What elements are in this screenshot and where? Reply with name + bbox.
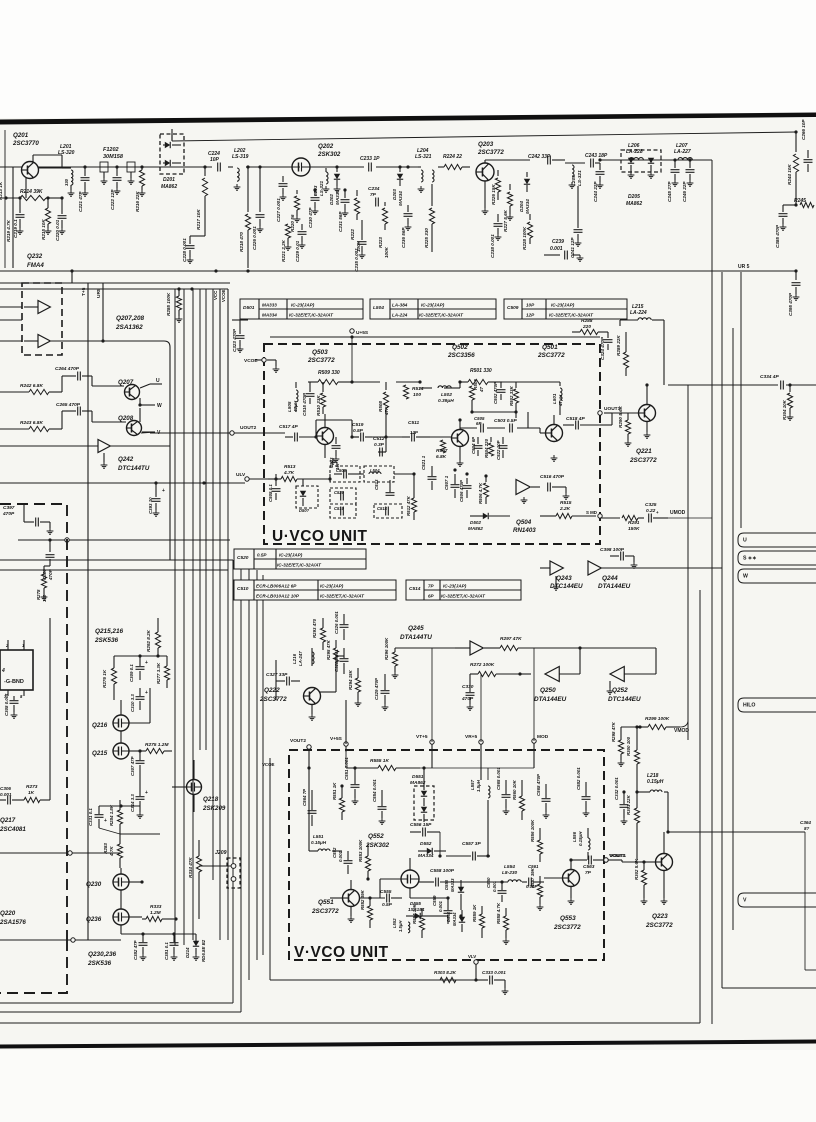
capacitor C382 47P — [133, 934, 148, 960]
svg-text:R288: R288 — [581, 318, 593, 324]
svg-text:10P: 10P — [210, 157, 220, 163]
svg-text:IC-32E/ET,IC-32A/AT: IC-32E/ET,IC-32A/AT — [289, 313, 334, 318]
bus wire — [740, 272, 742, 528]
resistor R300 100 — [626, 725, 640, 775]
wire — [487, 800, 489, 856]
transistor Q222 — [259, 680, 336, 720]
svg-text:2SK536: 2SK536 — [94, 637, 119, 644]
inductor L204 — [415, 148, 434, 192]
svg-text:Q202: Q202 — [318, 143, 334, 150]
svg-text:0.22: 0.22 — [646, 508, 656, 514]
capacitor C519 0.5P — [352, 422, 372, 442]
wire — [666, 792, 805, 834]
svg-text:VCOE: VCOE — [262, 762, 275, 767]
capacitor C309 0.1 — [129, 656, 148, 682]
svg-text:+: + — [145, 790, 148, 796]
capacitor C239 0.001 — [544, 239, 583, 261]
capacitor C516 470P — [540, 474, 569, 499]
node UOUT1 — [598, 406, 621, 415]
svg-text:L552: L552 — [392, 918, 397, 928]
wire — [487, 427, 505, 429]
wire — [71, 271, 73, 283]
capacitor C385 470P — [775, 205, 796, 248]
svg-text:L8-230: L8-230 — [502, 870, 518, 876]
capacitor C308 0.001 — [4, 693, 19, 718]
resistor R278 100 — [36, 566, 50, 602]
svg-text:D205: D205 — [628, 194, 640, 200]
capacitor C563 7P — [571, 856, 604, 877]
svg-text:VCOE: VCOE — [221, 289, 226, 302]
node VOUT1 — [604, 853, 626, 862]
svg-text:12P: 12P — [526, 313, 535, 318]
svg-text:R227 5.6K: R227 5.6K — [503, 209, 508, 232]
node S MD — [586, 510, 602, 518]
capacitor C517 4P — [279, 424, 316, 442]
table C510 — [234, 580, 396, 600]
wire — [275, 474, 277, 479]
svg-text:IC-23(JAP): IC-23(JAP) — [421, 303, 445, 308]
capacitor C242 33P — [528, 154, 565, 165]
capacitor C522 10P — [496, 437, 508, 460]
svg-text:C514: C514 — [409, 586, 421, 592]
label VCOE2 — [262, 762, 275, 767]
label UMOD — [670, 510, 686, 516]
svg-text:C306: C306 — [0, 786, 11, 791]
svg-text:7P: 7P — [370, 192, 377, 198]
svg-text:R301 22K: R301 22K — [626, 794, 631, 815]
rail — [0, 569, 228, 571]
resistor R333 1.2M — [142, 904, 178, 922]
capacitor C246 22P — [682, 160, 695, 202]
node VOUT1 v — [604, 853, 627, 862]
svg-text:D202: D202 — [329, 194, 334, 205]
svg-text:D553: D553 — [444, 879, 449, 890]
svg-text:S ∗∗: S ∗∗ — [743, 556, 757, 562]
svg-text:D50?: D50? — [299, 508, 310, 513]
capacitor C325 0.22 — [645, 502, 668, 523]
svg-text:MA862: MA862 — [410, 780, 426, 786]
label Q552 — [365, 833, 390, 849]
resistor R502 33K — [509, 382, 519, 418]
svg-text:C310 3.3: C310 3.3 — [130, 694, 135, 712]
svg-text:R554 10K: R554 10K — [412, 903, 417, 924]
junction — [794, 203, 797, 206]
svg-text:C327 33P: C327 33P — [266, 672, 288, 678]
svg-text:R291: R291 — [628, 520, 640, 526]
wire — [517, 427, 540, 429]
junction dots UVCO — [274, 380, 517, 480]
resistor R514 100 — [403, 385, 423, 399]
capacitor C314 3.3 — [130, 775, 148, 818]
V-VCO outer box — [269, 758, 271, 980]
label Q215 216 — [94, 628, 124, 644]
svg-text:470P: 470P — [48, 568, 53, 581]
svg-text:C509: C509 — [507, 305, 519, 311]
svg-text:Q215: Q215 — [92, 750, 108, 757]
wire — [430, 436, 451, 438]
wire rail 540 — [18, 539, 230, 541]
svg-text:LS-320: LS-320 — [58, 150, 75, 156]
svg-text:C243 18P: C243 18P — [585, 153, 608, 159]
svg-text:330: 330 — [64, 178, 69, 186]
bus wire — [183, 289, 185, 945]
svg-text:C219 0.1: C219 0.1 — [13, 219, 18, 238]
svg-text:30M158: 30M158 — [103, 154, 124, 160]
svg-text:LS-321: LS-321 — [415, 154, 432, 160]
wire — [385, 428, 387, 452]
svg-text:Q252: Q252 — [612, 687, 628, 694]
svg-text:C314 3.3: C314 3.3 — [130, 794, 135, 812]
wire — [12, 167, 14, 268]
wire — [140, 655, 167, 657]
right nest corner — [722, 987, 816, 989]
wire — [480, 752, 482, 780]
svg-text:+: + — [162, 488, 165, 494]
svg-text:C238 0.001: C238 0.001 — [490, 234, 495, 258]
svg-text:C556 15P: C556 15P — [410, 822, 432, 828]
capacitor C564 7P — [302, 752, 317, 826]
capacitor C515 470P — [302, 382, 315, 416]
wire — [352, 381, 380, 383]
resistor R276 1K — [102, 656, 117, 700]
svg-text:C220 0.01: C220 0.01 — [55, 219, 60, 241]
table D501 — [240, 299, 363, 319]
junction — [154, 481, 205, 484]
svg-text:R243 6.8K: R243 6.8K — [20, 420, 43, 426]
svg-text:FMA4: FMA4 — [27, 262, 44, 269]
wire rail 853 — [0, 851, 120, 855]
transistor Q203 — [476, 141, 530, 214]
wire — [379, 879, 381, 898]
svg-text:R292 8.2K: R292 8.2K — [146, 629, 151, 652]
svg-text:C221 47P: C221 47P — [78, 191, 83, 212]
svg-text:2SC3772: 2SC3772 — [307, 357, 335, 364]
svg-text:R215 10K: R215 10K — [41, 219, 46, 240]
bus wire — [711, 160, 713, 1024]
svg-text:Q504: Q504 — [516, 519, 532, 526]
resistor R228 100K — [522, 214, 533, 250]
svg-text:U: U — [743, 538, 747, 544]
svg-text:4.7K: 4.7K — [109, 846, 114, 857]
capacitor C510 dashed — [330, 504, 356, 518]
svg-text:C333 0.001: C333 0.001 — [482, 970, 506, 975]
wire — [460, 427, 477, 429]
svg-text:C330: C330 — [462, 684, 474, 690]
svg-text:V+5S: V+5S — [330, 736, 343, 742]
wire — [502, 381, 560, 383]
wire — [378, 451, 386, 453]
wire U+5S rail — [270, 329, 600, 339]
svg-text:IC-32E/ET,IC-32A/AT: IC-32E/ET,IC-32A/AT — [419, 313, 464, 318]
label RD6.8E B2 — [201, 939, 206, 962]
svg-text:MA862: MA862 — [161, 184, 177, 190]
buffer amp A — [0, 301, 50, 314]
svg-text:R244 10K: R244 10K — [787, 164, 792, 185]
svg-text:R278: R278 — [36, 589, 41, 600]
svg-text:Q502: Q502 — [452, 344, 468, 351]
bus wire — [227, 480, 229, 940]
capacitor C326 0.001 — [334, 611, 349, 640]
svg-text:VOUT2: VOUT2 — [290, 738, 306, 744]
svg-text:C564 7P: C564 7P — [302, 789, 307, 806]
bottom nest line1 — [0, 1002, 233, 1004]
svg-text:100K: 100K — [384, 246, 389, 258]
svg-text:L551: L551 — [313, 834, 324, 839]
resistor R303 8.2K — [434, 970, 457, 983]
svg-text:L505: L505 — [287, 401, 292, 412]
svg-text:0.5P: 0.5P — [353, 428, 364, 434]
bottom nest line3 — [0, 1022, 700, 1024]
resistor R244 10K — [787, 132, 799, 204]
capacitor C300 470P — [42, 538, 55, 581]
wire top rail slanted — [172, 132, 796, 141]
svg-text:+: + — [145, 660, 148, 666]
wire — [413, 474, 415, 484]
svg-text:C522 10P: C522 10P — [496, 440, 501, 460]
wire — [420, 387, 432, 389]
svg-text:C582 0.001: C582 0.001 — [576, 767, 581, 790]
svg-text:R513: R513 — [284, 464, 296, 470]
svg-text:LS-321: LS-321 — [319, 180, 324, 196]
svg-text:R510 33K: R510 33K — [316, 395, 321, 416]
svg-text:C266 10P: C266 10P — [801, 119, 806, 140]
svg-text:C565 0.001: C565 0.001 — [496, 767, 501, 790]
fet Q236 — [86, 890, 142, 925]
wire — [376, 166, 418, 168]
svg-text:LA-247: LA-247 — [298, 651, 303, 666]
capacitor C506 470P — [459, 478, 472, 502]
svg-text:2SK302: 2SK302 — [365, 842, 390, 849]
svg-text:C264 470P: C264 470P — [55, 366, 80, 372]
svg-text:ECR-LB006A12 6P: ECR-LB006A12 6P — [256, 584, 297, 589]
capacitor C236 56P — [401, 205, 413, 248]
svg-text:U: U — [156, 378, 160, 384]
svg-text:+: + — [656, 510, 659, 515]
svg-text:Q245: Q245 — [408, 625, 424, 632]
wire — [533, 648, 535, 741]
svg-text:MA334: MA334 — [452, 912, 457, 926]
buffer Q243 — [540, 561, 583, 590]
resistor R217 10K — [196, 167, 208, 236]
svg-text:Q223: Q223 — [652, 913, 668, 920]
capacitor C558 100P — [419, 868, 460, 887]
svg-text:D552: D552 — [420, 841, 432, 847]
bus wire — [262, 575, 264, 955]
wire — [394, 473, 414, 475]
svg-text:Q553: Q553 — [560, 915, 576, 922]
capacitor C554 0.001 — [372, 779, 387, 824]
capacitor C241 12P — [570, 186, 583, 258]
svg-text:DTC144TU: DTC144TU — [118, 465, 150, 472]
svg-text:R505: R505 — [473, 379, 478, 390]
svg-text:D214: D214 — [185, 947, 190, 958]
svg-text:R512 47K: R512 47K — [406, 495, 411, 516]
node VT+5 — [416, 734, 434, 744]
svg-text:D201: D201 — [163, 177, 175, 183]
svg-text:R300 100: R300 100 — [626, 736, 631, 756]
svg-text:Q551: Q551 — [318, 899, 334, 906]
capacitor C266 10P — [801, 119, 813, 172]
wire — [315, 420, 317, 437]
capacitor C504 6P — [471, 437, 483, 456]
capacitor C555 0.5P — [360, 889, 402, 908]
label W — [157, 403, 162, 409]
wire rail 483 — [0, 482, 1, 484]
svg-text:R284 1.8K: R284 1.8K — [109, 804, 114, 826]
svg-text:7P: 7P — [585, 870, 592, 876]
svg-text:R515: R515 — [560, 500, 572, 506]
resistor R283 4.7K — [103, 834, 123, 868]
node S MD wire — [600, 517, 620, 519]
svg-text:C385 470P: C385 470P — [775, 224, 780, 248]
inductor L215 LA-224 — [620, 304, 664, 320]
svg-text:Q230: Q230 — [86, 881, 102, 888]
svg-text:2SK302: 2SK302 — [317, 151, 341, 158]
junction dots VVCO — [340, 766, 572, 917]
wire — [302, 479, 304, 486]
wire — [460, 381, 468, 383]
svg-text:IC-32E/ET,IC-32A/AT: IC-32E/ET,IC-32A/AT — [549, 313, 594, 318]
table C509 — [504, 299, 627, 319]
bus wire — [199, 289, 201, 750]
wire — [308, 768, 310, 851]
svg-text:UR5: UR5 — [96, 288, 102, 298]
svg-text:UMOD: UMOD — [670, 510, 686, 516]
inductor L207 LA-227 — [674, 143, 692, 160]
capacitor C520 dashed — [330, 488, 356, 504]
node V+5S — [330, 736, 348, 746]
svg-text:2SA1576: 2SA1576 — [0, 919, 26, 926]
wire VCOE — [221, 289, 228, 480]
svg-text:C552: C552 — [332, 847, 337, 858]
resistor R505 47 — [469, 379, 484, 412]
capacitor C512 0.3P — [373, 436, 385, 457]
svg-text:0.3P: 0.3P — [374, 442, 385, 448]
capacitor C238 0.001 — [490, 214, 503, 258]
transistor Q208 — [92, 403, 155, 435]
svg-text:10P: 10P — [526, 303, 535, 308]
svg-text:C233 1P: C233 1P — [360, 156, 380, 162]
svg-text:R303 8.2K: R303 8.2K — [434, 970, 457, 975]
svg-text:C231 56P: C231 56P — [338, 211, 343, 232]
wire — [539, 428, 541, 433]
svg-text:L504: L504 — [370, 468, 380, 473]
svg-text:7P: 7P — [428, 584, 435, 589]
svg-text:Q244: Q244 — [602, 575, 618, 582]
svg-text:R222: R222 — [350, 229, 355, 240]
capacitor C245 27P — [667, 160, 680, 202]
svg-text:47K: 47K — [384, 406, 389, 416]
svg-text:UR 5: UR 5 — [738, 264, 750, 270]
svg-text:0.001: 0.001 — [550, 246, 563, 252]
svg-text:MA334: MA334 — [418, 853, 434, 859]
svg-text:L502: L502 — [441, 392, 452, 398]
svg-text:47μH: 47μH — [558, 394, 563, 407]
label Q207 208 — [115, 315, 145, 331]
wire — [311, 648, 313, 666]
transistor Q221 — [608, 385, 657, 464]
svg-text:2SC3772: 2SC3772 — [537, 352, 565, 359]
capacitor C220 0.01 — [55, 198, 67, 241]
wire — [444, 387, 460, 389]
svg-text:0.39μH: 0.39μH — [438, 398, 454, 404]
capacitor C560 0.001 — [486, 877, 507, 902]
junction — [794, 130, 797, 133]
svg-text:C236 56P: C236 56P — [401, 227, 406, 248]
table C514 — [406, 580, 521, 600]
diode D214 — [185, 934, 199, 960]
capacitor C397 470P — [2, 504, 53, 534]
svg-text:R216 22K: R216 22K — [135, 191, 140, 212]
svg-text:VCC: VCC — [213, 290, 218, 300]
svg-text:C329 470P: C329 470P — [374, 678, 379, 700]
diode D202 MA334 — [329, 167, 340, 205]
svg-text:Q221: Q221 — [636, 448, 652, 455]
resistor R289 22K — [616, 332, 629, 376]
resistor R559 1K — [472, 904, 485, 938]
capacitor C523 10P — [329, 437, 341, 470]
svg-text:R223: R223 — [378, 237, 383, 248]
svg-text:R559 1K: R559 1K — [472, 904, 477, 922]
svg-text:Q230,236: Q230,236 — [88, 951, 117, 958]
svg-text:Q236: Q236 — [86, 916, 102, 923]
inductor L216 LA-247 — [292, 651, 314, 666]
resistor R560 10K — [512, 779, 525, 820]
diode D204 MA334 — [519, 172, 530, 214]
svg-text:C557 3P: C557 3P — [462, 841, 481, 847]
capacitor C511 12P — [402, 420, 430, 442]
svg-text:LS-321: LS-321 — [577, 170, 583, 186]
buffer Q242 — [0, 440, 170, 561]
capacitor C231 56P — [338, 190, 350, 232]
rail C334 — [668, 384, 816, 386]
svg-text:S MD: S MD — [586, 510, 597, 515]
svg-text:0.15μH: 0.15μH — [311, 840, 327, 845]
resistor R507 6.8K — [436, 440, 448, 460]
wire — [487, 768, 489, 780]
bus wire — [212, 289, 214, 880]
svg-text:R501 330: R501 330 — [470, 368, 492, 374]
svg-text:2.2K: 2.2K — [559, 506, 571, 512]
svg-text:0.15μH: 0.15μH — [578, 831, 583, 846]
svg-text:C308 0.001: C308 0.001 — [4, 693, 9, 716]
wire UR5 rail — [0, 264, 750, 271]
svg-text:R298 47K: R298 47K — [611, 721, 616, 742]
capacitor C333 0.001 — [474, 970, 508, 994]
wire — [480, 674, 482, 742]
bus wire — [219, 480, 221, 940]
svg-text:C395 470P: C395 470P — [788, 292, 793, 316]
svg-text:R283: R283 — [103, 843, 108, 854]
resistor R284 1.8K — [109, 800, 123, 834]
transistor Q501 — [537, 344, 565, 461]
wire UR5 vert — [96, 283, 105, 343]
resistor R552 39K — [360, 889, 373, 928]
label C364 — [800, 820, 811, 831]
svg-text:1.5μH: 1.5μH — [476, 779, 481, 792]
inductor L202 LS-319 — [232, 148, 249, 190]
svg-text:IC-23(JAP): IC-23(JAP) — [279, 553, 303, 558]
svg-text:R228 100K: R228 100K — [522, 226, 527, 250]
inductor L218 0.15uH — [637, 773, 668, 792]
svg-text:C331 0.1: C331 0.1 — [88, 808, 93, 826]
transistor Q553 — [544, 860, 581, 931]
wire — [431, 744, 433, 752]
bus wire — [205, 289, 207, 750]
capacitor C243 18P — [565, 153, 608, 168]
svg-text:C502 470P: C502 470P — [493, 382, 498, 404]
resistor R506 4.7K — [478, 476, 489, 504]
